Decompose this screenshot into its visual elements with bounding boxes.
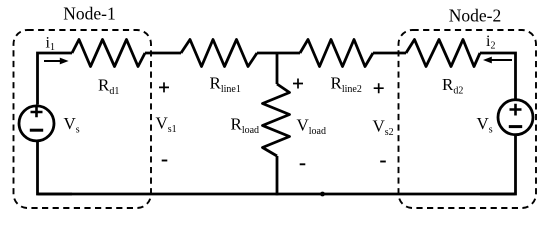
resistor Rline1 [181,40,257,67]
minus sign inside left source [30,129,43,132]
junction dot on bottom rail [320,192,325,197]
wire between Rline2 and Rd2 [373,52,406,55]
node Node-2 boundary (dashed box) [399,30,537,208]
current arrow i2 [483,57,512,64]
wire top right segment with corner to right source [480,53,516,99]
voltage source Vs right (circle) [498,100,533,135]
plus sign inside right source [510,104,522,116]
svg-text:i2: i2 [486,33,495,52]
plus sign Vload [293,79,303,89]
wire left source top lead with corner to top rail [38,53,73,105]
minus sign inside right source [509,125,522,128]
wire left source bottom lead [38,141,73,194]
wire load top lead [276,53,279,84]
wire load bottom lead [276,156,279,195]
voltage source Vs left (circle) [19,106,54,141]
plus sign Vs2 [374,83,384,93]
resistor Rd2 [406,40,480,67]
svg-text:Vs2: Vs2 [373,117,394,139]
minus sign Vs2 [380,161,386,163]
svg-text:Rload: Rload [231,115,260,137]
svg-text:Rd2: Rd2 [442,75,463,97]
resistor Rd1 [72,40,145,67]
svg-text:Vs: Vs [477,114,493,136]
minus sign Vs1 [162,160,168,162]
current arrow i1 [44,58,69,65]
wire bottom rail [38,193,516,196]
resistor Rline2 [300,40,373,67]
wire between Rd1 and Rline1 [145,52,181,55]
plus sign inside left source [31,107,43,117]
minus sign Vload [300,163,306,165]
svg-text:Node-2: Node-2 [449,6,501,26]
svg-text:Vs1: Vs1 [156,114,177,136]
svg-text:Rline2: Rline2 [331,74,362,96]
svg-text:Vload: Vload [297,116,327,138]
node Node-1 boundary (dashed box) [14,30,152,208]
svg-text:Rline1: Rline1 [210,74,241,96]
svg-text:i1: i1 [46,35,55,54]
resistor Rload [263,84,290,156]
wire between Rline1 and Rline2 (with T junction) [257,52,300,55]
wire right source bottom lead [480,135,516,194]
svg-text:Vs: Vs [64,114,80,136]
svg-text:Rd1: Rd1 [98,76,119,98]
plus sign Vs1 [159,82,169,92]
svg-text:Node-1: Node-1 [63,4,115,24]
